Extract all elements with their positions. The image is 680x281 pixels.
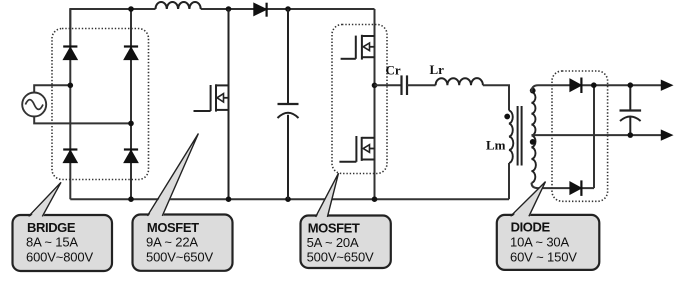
diode D1 bridge top-left bbox=[63, 47, 77, 60]
wire half-bridge vertical leg bbox=[374, 9, 376, 199]
svg-text:BRIDGE: BRIDGE bbox=[27, 220, 76, 235]
bridge right leg wire bbox=[130, 9, 132, 199]
svg-text:5A ~ 20A: 5A ~ 20A bbox=[307, 235, 359, 250]
half-bridge enclosure dashed box bbox=[332, 25, 387, 174]
node bridge right leg top junction bbox=[128, 6, 134, 12]
wire top rail middle (inductor to half-bridge drain turn-down) bbox=[201, 8, 375, 10]
svg-text:10A ~ 30A: 10A ~ 30A bbox=[510, 234, 569, 249]
callout pointer MOSFET boost bbox=[147, 134, 198, 219]
node AC to right leg junction bbox=[128, 121, 134, 127]
transistor Q2 half-bridge high side MOSFET bbox=[341, 35, 375, 60]
transformer T1 core bbox=[518, 106, 522, 166]
rectifier enclosure dashed box bbox=[552, 71, 608, 201]
node secondary top phase dot bbox=[530, 88, 536, 94]
diode D6 output rectifier top bbox=[570, 78, 582, 94]
node output cap bottom junction bbox=[628, 132, 634, 138]
diode D5 boost diode bbox=[254, 3, 267, 17]
node secondary lower phase dot bbox=[530, 139, 536, 145]
callout box MOSFET boost bbox=[133, 215, 233, 271]
svg-text:500V~650V: 500V~650V bbox=[146, 250, 213, 265]
wire top rail left (bridge output to boost inductor) bbox=[70, 9, 155, 47]
node output cap top junction bbox=[628, 82, 634, 88]
diode D4 bridge bottom-right bbox=[124, 150, 138, 163]
node bulk cap top junction bbox=[285, 6, 291, 12]
node primary phase dot bbox=[504, 114, 510, 120]
output arrow negative bbox=[661, 130, 672, 140]
node boost source bottom junction bbox=[226, 196, 232, 202]
diode D3 bridge bottom-left bbox=[63, 150, 77, 163]
wire bottom rail bbox=[70, 198, 509, 200]
svg-text:MOSFET: MOSFET bbox=[308, 221, 360, 236]
bridge enclosure dashed box bbox=[52, 29, 149, 180]
node half-bridge midpoint junction bbox=[372, 83, 378, 89]
svg-text:Lr: Lr bbox=[430, 62, 445, 77]
svg-text:Cr: Cr bbox=[386, 63, 401, 78]
wire secondary top lead and positive output rail bbox=[532, 85, 662, 92]
callout box DIODE bbox=[497, 215, 600, 270]
svg-text:9A ~ 22A: 9A ~ 22A bbox=[146, 235, 198, 250]
callout box BRIDGE bbox=[13, 215, 113, 271]
svg-text:600V~800V: 600V~800V bbox=[26, 250, 93, 265]
wire Cr to Lr bbox=[407, 84, 436, 86]
wire AC bottom lead to node on right leg bbox=[34, 117, 131, 124]
wire secondary center tap output rail bbox=[532, 134, 662, 136]
transformer T1 secondary winding upper bbox=[532, 92, 536, 135]
svg-text:Lm: Lm bbox=[486, 138, 506, 153]
wire Lr to transformer primary top bbox=[483, 85, 509, 110]
callout box MOSFET half-bridge bbox=[301, 216, 391, 269]
AC source V1 bbox=[22, 93, 46, 117]
node boost MOSFET drain junction bbox=[226, 6, 232, 12]
node half-bridge bottom junction bbox=[372, 196, 378, 202]
svg-text:DIODE: DIODE bbox=[511, 220, 551, 235]
transformer T1 primary winding Lm bbox=[509, 111, 513, 164]
callout pointer BRIDGE bbox=[29, 182, 61, 218]
transformer T1 secondary winding lower bbox=[532, 135, 536, 182]
callout pointer MOSFET half-bridge bbox=[316, 173, 339, 219]
transistor Q3 half-bridge low side MOSFET bbox=[339, 136, 374, 162]
wire secondary bottom lead to lower rectifier bbox=[532, 183, 595, 188]
svg-text:8A ~ 15A: 8A ~ 15A bbox=[26, 235, 78, 250]
wire half-bridge midpoint to Cr bbox=[375, 84, 402, 86]
svg-text:500V~650V: 500V~650V bbox=[307, 250, 374, 265]
svg-text:MOSFET: MOSFET bbox=[147, 220, 199, 235]
node rectifier output junction bbox=[591, 82, 597, 88]
capacitor C2 output capacitor bbox=[620, 85, 642, 135]
svg-text:60V ~ 150V: 60V ~ 150V bbox=[510, 250, 577, 265]
output arrow positive bbox=[661, 80, 672, 90]
callout pointer DIODE bbox=[511, 182, 546, 219]
bridge left leg wire bbox=[69, 9, 71, 199]
node AC to left leg junction bbox=[68, 83, 74, 89]
capacitor Cr resonant capacitor bbox=[402, 75, 408, 95]
node bulk cap bottom junction bbox=[285, 196, 291, 202]
diode D7 output rectifier bottom bbox=[570, 180, 582, 196]
wire transformer primary bottom return bbox=[508, 163, 510, 199]
transistor Q1 boost MOSFET bbox=[194, 9, 229, 199]
diode D2 bridge top-right bbox=[124, 47, 138, 60]
wire AC top lead to node on left leg bbox=[34, 85, 70, 92]
inductor L1 boost choke bbox=[156, 2, 201, 9]
inductor Lr resonant inductor bbox=[436, 78, 483, 85]
wire lower rectifier cathode riser bbox=[593, 85, 595, 188]
capacitor C1 bulk capacitor bbox=[278, 9, 299, 199]
node bridge right leg bottom junction bbox=[128, 196, 134, 202]
